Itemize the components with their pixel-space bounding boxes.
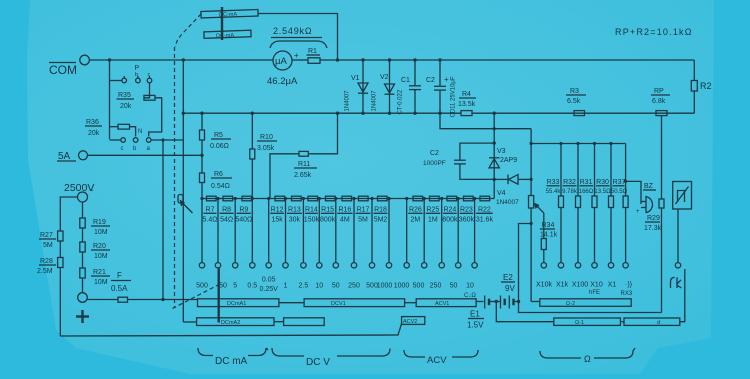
fuse F 0.5A — [87, 271, 131, 302]
svg-text:360k: 360k — [459, 217, 475, 224]
svg-text:C↓Ω: C↓Ω — [464, 293, 476, 299]
svg-text:250: 250 — [430, 283, 442, 290]
svg-text:RP: RP — [654, 88, 664, 95]
switch contact — [404, 263, 409, 268]
switch contact — [233, 263, 238, 268]
resistor R25 1M inline — [430, 196, 440, 201]
svg-text:μA: μA — [275, 56, 287, 67]
wire top bus COM to meter — [89, 59, 273, 61]
svg-text:X100: X100 — [572, 282, 588, 289]
switch contact — [199, 263, 204, 268]
wire right column to BZ and R37 — [625, 144, 627, 197]
brace DC V — [272, 348, 390, 368]
switch contact — [422, 263, 427, 268]
resistor R20 10M — [80, 228, 110, 260]
rotary indicator bar 1 — [201, 9, 258, 18]
svg-text:R16: R16 — [338, 207, 351, 214]
wire E2 minus down and right — [519, 302, 662, 313]
svg-text:DCmA2: DCmA2 — [221, 320, 240, 326]
wire range tap drop — [285, 199, 287, 263]
svg-text:13.5Ω: 13.5Ω — [594, 189, 611, 195]
node lower bus junctions — [182, 112, 185, 115]
svg-text:50: 50 — [219, 283, 227, 290]
svg-text:R7: R7 — [206, 207, 215, 214]
svg-text:R23: R23 — [460, 207, 473, 214]
svg-text:13.5k: 13.5k — [458, 101, 476, 108]
switch contact — [250, 263, 255, 268]
svg-text:R2: R2 — [700, 81, 712, 91]
svg-text:R10: R10 — [260, 134, 273, 141]
ohm bank columns R33 R32 R31 R30 R37 — [559, 144, 614, 263]
svg-text:R36: R36 — [86, 119, 99, 126]
wire E1 node to ohm deck row2 — [496, 302, 554, 322]
svg-text:·)): ·)) — [625, 282, 632, 289]
label boxes R33-R37 — [546, 179, 628, 195]
switch contact — [266, 263, 271, 268]
svg-text:500: 500 — [413, 283, 425, 290]
switch contact — [472, 263, 477, 268]
svg-text:CT-0.022: CT-0.022 — [398, 89, 404, 114]
svg-text:10M: 10M — [94, 229, 108, 236]
svg-text:Ω: Ω — [584, 354, 591, 364]
svg-text:0.54Ω: 0.54Ω — [211, 183, 230, 190]
switch contact — [386, 263, 391, 268]
svg-text:+: + — [444, 75, 449, 84]
svg-text:R32: R32 — [563, 179, 576, 186]
svg-text:c: c — [121, 146, 124, 152]
svg-text:R31: R31 — [580, 179, 593, 186]
svg-text:0.5A: 0.5A — [111, 284, 128, 293]
wire fuse to DCmA1 bar — [128, 299, 198, 301]
label J2 jack glyph — [671, 277, 682, 288]
resistor R7 5.4Ω inline — [207, 196, 217, 201]
resistor R17 5M inline — [359, 196, 369, 201]
wire ohm bank top rail — [531, 143, 626, 145]
wire range tap drop — [251, 199, 253, 263]
wire meter to R1 — [292, 59, 308, 61]
svg-text:R20: R20 — [93, 243, 106, 250]
node top bus junctions — [108, 58, 111, 61]
wire feed down to ohm bank — [530, 129, 532, 144]
svg-text:X1: X1 — [608, 282, 617, 289]
svg-text:1000: 1000 — [394, 283, 410, 290]
svg-text:14.1k: 14.1k — [540, 232, 558, 239]
diode V1 1N4007 — [345, 60, 369, 113]
dashed coupling top diagonal — [176, 14, 202, 47]
wire link — [405, 302, 417, 304]
dashed coupling bottom diagonal — [173, 285, 219, 309]
resistor R13 30k inline — [292, 196, 302, 201]
svg-text:30k: 30k — [289, 217, 301, 224]
brace ohm — [540, 348, 635, 364]
resistor R26 2M inline — [413, 196, 423, 201]
svg-text:R17: R17 — [357, 207, 370, 214]
svg-text:F: F — [117, 271, 122, 280]
wire range tap drop — [441, 199, 443, 263]
svg-text:540Ω: 540Ω — [235, 217, 252, 224]
dashed coupling vertical — [174, 47, 176, 308]
wire range tap drop — [457, 199, 459, 263]
wire jack to contact — [677, 209, 679, 263]
resistor R29 17.3k — [644, 199, 664, 313]
switch contact — [333, 263, 338, 268]
svg-text:ACV1: ACV1 — [435, 301, 449, 307]
svg-text:250: 250 — [348, 283, 360, 290]
svg-text:V3: V3 — [497, 148, 506, 155]
capacitor C2 1000PF — [423, 143, 494, 179]
resistor R24 800k inline — [447, 196, 457, 201]
svg-text:R27: R27 — [40, 232, 53, 239]
svg-text:1M: 1M — [428, 217, 438, 224]
svg-text:10: 10 — [315, 283, 323, 290]
svg-text:0.25V: 0.25V — [260, 286, 279, 293]
wire bar1 to meter node — [258, 14, 338, 61]
svg-text:0.05: 0.05 — [262, 277, 276, 284]
resistor R2 — [691, 81, 711, 92]
svg-text:1N4007: 1N4007 — [345, 90, 351, 112]
svg-text:+: + — [294, 51, 299, 60]
switch bar aux row2 — [284, 318, 325, 326]
svg-text:R12: R12 — [271, 207, 284, 214]
svg-text:hFE: hFE — [589, 290, 600, 296]
svg-text:R1: R1 — [308, 48, 317, 55]
wire range tap drop — [201, 199, 203, 263]
svg-text:X10k: X10k — [536, 282, 552, 289]
wire R1 to R2 corner — [320, 59, 694, 61]
contacts ohm range — [558, 263, 563, 268]
svg-text:6.5k: 6.5k — [567, 98, 581, 105]
resistor R22 31.6k inline — [480, 196, 490, 201]
resistor R16 4M inline — [342, 196, 352, 201]
svg-text:V2: V2 — [380, 74, 389, 81]
resistor R11 2.65k — [270, 113, 338, 198]
brace DC mA — [198, 348, 268, 367]
svg-text:R5: R5 — [214, 132, 223, 139]
diode V4 1N4007 — [494, 175, 531, 206]
rotary indicator bar 2 — [204, 30, 251, 40]
wire range tap drop — [217, 199, 219, 263]
resistor R18 5M2 inline — [378, 196, 388, 201]
svg-text:R11: R11 — [298, 161, 310, 168]
svg-text:2M: 2M — [411, 217, 421, 224]
switch bar d row2 — [624, 318, 680, 326]
switch contact — [317, 263, 322, 268]
brace ACV — [404, 350, 478, 366]
switch contact — [456, 263, 461, 268]
svg-text:2.5M: 2.5M — [37, 268, 53, 275]
terminal 2500V — [64, 182, 94, 202]
switch contact — [215, 263, 220, 268]
meter M1 microammeter — [273, 51, 292, 70]
diode V2 1N4007 — [372, 60, 395, 113]
svg-text:E1: E1 — [470, 310, 480, 319]
resistor R4 inline on bus — [458, 91, 476, 116]
switch deck P contacts upper — [110, 60, 152, 139]
wire range tap drop — [423, 199, 425, 263]
svg-text:R35: R35 — [118, 92, 131, 99]
svg-text:50: 50 — [332, 283, 340, 290]
svg-text:20k: 20k — [120, 103, 132, 110]
svg-text:R3: R3 — [570, 88, 579, 95]
buzzer BZ — [636, 183, 656, 215]
resistor R6 0.54 ohm — [200, 140, 233, 199]
svg-text:DCV1: DCV1 — [331, 301, 346, 307]
wire range tap drop — [318, 199, 320, 263]
svg-text:X1k: X1k — [556, 282, 569, 289]
svg-text:1N4007: 1N4007 — [496, 199, 519, 206]
svg-text:9V: 9V — [505, 284, 515, 293]
svg-text:RP+R2=10.1kΩ: RP+R2=10.1kΩ — [615, 27, 693, 37]
svg-text:R19: R19 — [93, 219, 106, 226]
svg-text:ACV: ACV — [427, 355, 447, 366]
switch contact — [439, 263, 444, 268]
wiper arrow DC common — [178, 195, 193, 214]
resistor R34 14.1k — [540, 213, 558, 263]
resistor R10 3.05k — [250, 113, 277, 198]
switch bar ohm row1 — [540, 299, 631, 307]
svg-text:5.4Ω: 5.4Ω — [203, 217, 218, 224]
svg-text:0.5: 0.5 — [247, 283, 257, 290]
wire down to R2 — [693, 60, 695, 81]
potentiometer RP inline on bus — [651, 88, 670, 116]
svg-text:d: d — [657, 320, 660, 326]
svg-text:5: 5 — [233, 283, 237, 290]
terminal 5A — [57, 151, 88, 162]
svg-text:E2: E2 — [503, 273, 513, 282]
svg-text:1000PF: 1000PF — [423, 160, 446, 167]
svg-text:R37: R37 — [613, 179, 626, 186]
switch bar DCmA1 — [198, 299, 279, 307]
svg-text:10M: 10M — [94, 253, 108, 260]
svg-text:R13: R13 — [288, 207, 301, 214]
svg-text:C2: C2 — [426, 77, 435, 84]
svg-text:2AP9: 2AP9 — [500, 157, 517, 164]
resistor R19 10M — [80, 202, 110, 236]
svg-text:X10: X10 — [590, 282, 603, 289]
resistor R15 800k inline — [326, 196, 336, 201]
resistor R36 20k — [85, 119, 136, 137]
diode V3 2AP9 — [489, 143, 517, 179]
svg-text:C1: C1 — [401, 77, 410, 84]
wire range tap drop — [388, 199, 390, 263]
svg-text:V4: V4 — [497, 190, 506, 197]
svg-text:R6: R6 — [214, 171, 223, 178]
svg-text:9.78k: 9.78k — [562, 189, 578, 195]
svg-text:1: 1 — [284, 283, 288, 290]
switch bar DCmA2 — [197, 318, 274, 326]
svg-text:54Ω: 54Ω — [220, 217, 233, 224]
svg-text:150k: 150k — [304, 217, 320, 224]
wire range tap drop — [406, 199, 408, 263]
svg-text:R25: R25 — [426, 207, 439, 214]
svg-text:DC V: DC V — [306, 357, 330, 368]
svg-text:800k: 800k — [320, 217, 336, 224]
wire link — [274, 321, 284, 323]
svg-text:~: ~ — [89, 186, 94, 195]
svg-text:+: + — [636, 209, 640, 215]
svg-text:5M: 5M — [358, 217, 368, 224]
svg-text:DC mA: DC mA — [215, 356, 248, 367]
svg-text:17.3k: 17.3k — [644, 225, 662, 232]
switch deck N contacts lower — [110, 138, 184, 300]
switch bar ACV2 — [402, 317, 425, 325]
svg-text:10M: 10M — [94, 279, 108, 286]
svg-text:1.5V: 1.5V — [467, 321, 484, 330]
switch bar ACV1 — [416, 299, 476, 307]
svg-text:R8: R8 — [222, 207, 231, 214]
svg-text:R18: R18 — [374, 207, 387, 214]
svg-text:20k: 20k — [88, 130, 100, 137]
svg-text:V1: V1 — [351, 75, 360, 82]
resistor R8 54Ω inline — [223, 196, 233, 201]
wire bottom rail — [60, 324, 401, 337]
svg-text:50: 50 — [450, 283, 458, 290]
battery E2 9V — [496, 273, 518, 309]
wire C2 to ohm-section feed — [440, 113, 531, 129]
svg-text:2.549kΩ: 2.549kΩ — [273, 26, 312, 36]
wire link — [279, 302, 304, 304]
svg-text:15k: 15k — [271, 217, 283, 224]
battery E1 1.5V — [467, 296, 496, 330]
capacitor C2 electrolytic 25V10uF — [426, 60, 457, 118]
wire link — [620, 321, 624, 323]
wire range tap drop — [268, 199, 270, 263]
svg-text:R22: R22 — [478, 207, 491, 214]
svg-text:DC-mA: DC-mA — [216, 33, 235, 40]
wire J2 column down — [680, 269, 685, 322]
resistor R35 20k — [117, 83, 162, 137]
wire range tap drop — [234, 199, 236, 263]
wire range tap drop — [474, 199, 476, 263]
svg-text:R9: R9 — [239, 207, 248, 214]
svg-text:BZ: BZ — [644, 183, 654, 190]
switch contact — [301, 263, 306, 268]
svg-text:2.5: 2.5 — [299, 283, 309, 290]
svg-text:R4: R4 — [462, 91, 471, 98]
svg-text:R26: R26 — [409, 207, 422, 214]
potentiometer RY ohm-adjust — [529, 144, 534, 302]
svg-text:R33: R33 — [547, 179, 560, 186]
svg-text:R30: R30 — [596, 179, 609, 186]
wire COM selector common vertical — [182, 60, 184, 322]
svg-text:166Ω: 166Ω — [579, 189, 594, 195]
svg-text:5M2: 5M2 — [374, 217, 388, 224]
wire common to DCmA2 bar — [183, 321, 196, 323]
wire ACV1 to battery — [476, 301, 483, 303]
svg-text:2.65k: 2.65k — [294, 172, 312, 179]
switch contact — [283, 263, 288, 268]
svg-text:R14: R14 — [305, 207, 318, 214]
wiper arrow to R34 — [534, 203, 544, 213]
svg-text:P: P — [135, 65, 140, 72]
svg-text:DCmA1: DCmA1 — [227, 301, 246, 307]
svg-text:5M: 5M — [43, 242, 53, 249]
switch contact — [369, 263, 374, 268]
wire branch to buzzer — [626, 181, 641, 204]
resistor R3 inline on bus — [566, 88, 586, 116]
svg-text:0.06Ω: 0.06Ω — [210, 143, 229, 150]
svg-text:ACV2: ACV2 — [403, 319, 417, 325]
svg-text:50.5Ω: 50.5Ω — [611, 189, 628, 195]
switch contact — [351, 263, 356, 268]
wire range tap drop — [302, 199, 304, 263]
svg-text:N: N — [138, 129, 142, 135]
wire 5A to R5/R6 node — [88, 154, 203, 156]
svg-text:800k: 800k — [442, 217, 458, 224]
svg-text:c: c — [148, 72, 151, 78]
wire range tap drop — [353, 199, 355, 263]
rotary wiper shaft — [221, 7, 223, 40]
wire chain right end riser to V4 node — [493, 179, 495, 198]
capacitor C1 0.022 — [398, 60, 422, 115]
wire R2 to lower bus — [693, 91, 695, 113]
svg-text:RX3: RX3 — [621, 291, 633, 297]
svg-text:R29: R29 — [647, 215, 660, 222]
svg-text:R15: R15 — [321, 207, 334, 214]
wire range tap drop — [335, 199, 337, 263]
switch bar ohm row2 — [554, 318, 621, 326]
svg-text:R24: R24 — [443, 207, 456, 214]
resistor R27 5M — [39, 231, 63, 249]
wire RP wiper down through R29 — [661, 116, 663, 199]
svg-text:4M: 4M — [340, 217, 350, 224]
wire E2 riser to ohm pot column — [519, 224, 532, 302]
svg-text:COM: COM — [49, 63, 77, 77]
svg-text:C2: C2 — [430, 150, 439, 157]
wire pot to ohm bar row1 — [531, 301, 540, 303]
svg-text:Ω-1: Ω-1 — [575, 320, 584, 326]
wire range tap drop — [371, 199, 373, 263]
svg-text:31.6k: 31.6k — [476, 217, 494, 224]
svg-text:1N4007: 1N4007 — [372, 90, 378, 112]
resistor R14 150k inline — [308, 196, 318, 201]
svg-text:500: 500 — [196, 283, 208, 290]
wire V3 branch from bus — [493, 113, 495, 143]
switch contact X10k — [541, 263, 546, 268]
label COM — [49, 63, 77, 78]
svg-text:55.4k: 55.4k — [546, 189, 562, 195]
jack body square — [673, 182, 692, 210]
svg-text:46.2μA: 46.2μA — [267, 76, 298, 87]
switch bar DCV1 — [304, 299, 405, 307]
switch contact J2 — [675, 263, 680, 268]
terminal plus — [76, 278, 89, 323]
svg-text:b: b — [135, 72, 138, 78]
svg-text:R21: R21 — [93, 269, 106, 276]
resistor R1 — [307, 48, 321, 63]
brace over meter section — [270, 41, 327, 48]
svg-text:3.05k: 3.05k — [257, 145, 275, 152]
wire DC/ACV multiplier chain — [202, 198, 494, 200]
wire R28 down to bottom rail — [59, 268, 61, 337]
svg-text:6.8k: 6.8k — [652, 98, 666, 105]
resistor R23 360k inline — [464, 196, 474, 201]
resistor R21 10M — [80, 252, 110, 286]
svg-text:Ω-2: Ω-2 — [566, 301, 575, 307]
COM terminal — [80, 55, 90, 65]
wire 2500V left branch to R27 — [60, 197, 77, 231]
resistor R5 0.06 ohm — [200, 113, 232, 150]
wire lower bus — [183, 112, 461, 114]
wire selected-position heavy link — [217, 268, 219, 323]
svg-text:CD11 25V10μF: CD11 25V10μF — [451, 76, 457, 117]
svg-text:1000: 1000 — [377, 283, 393, 290]
resistor R9 540Ω inline — [242, 196, 252, 201]
resistor R12 15k inline — [275, 196, 285, 201]
svg-text:R28: R28 — [40, 258, 53, 265]
svg-text:10: 10 — [466, 283, 474, 290]
resistor R28 2.5M — [37, 241, 63, 275]
